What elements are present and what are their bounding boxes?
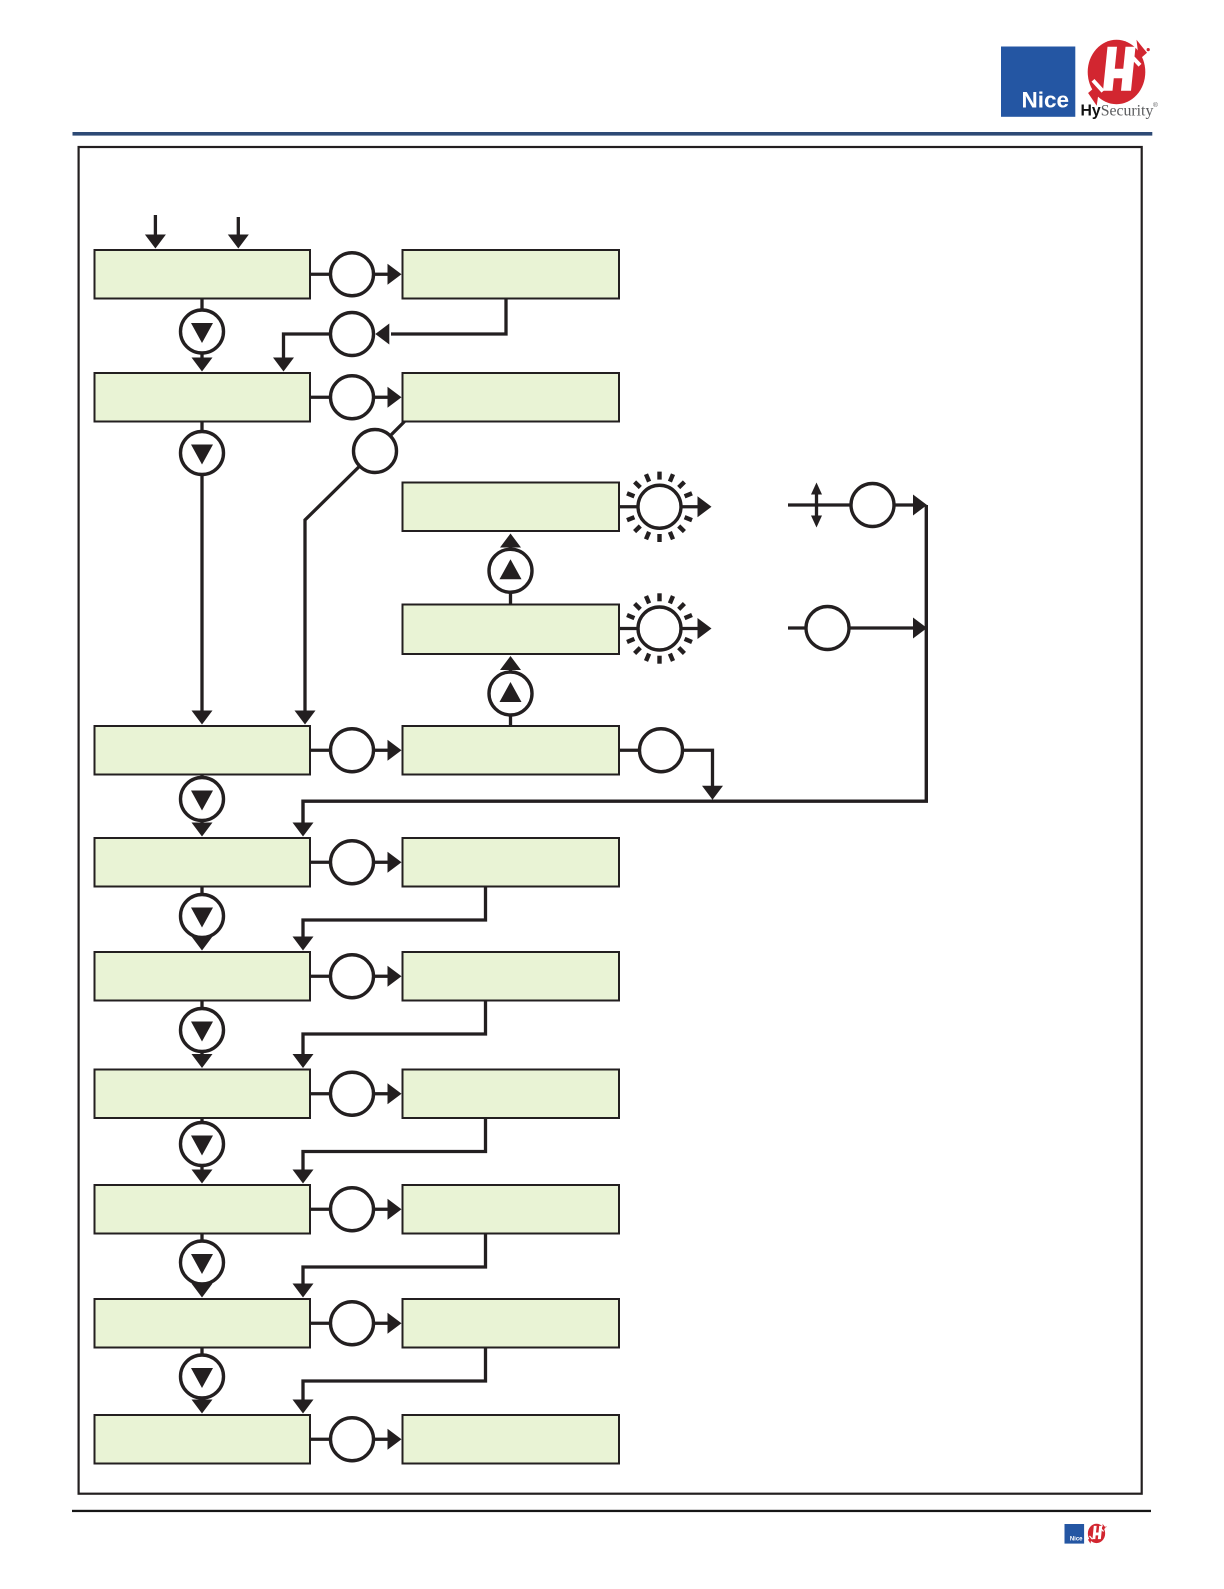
arrow into B6 bottom bbox=[500, 534, 521, 548]
display box R1-right bbox=[403, 250, 620, 299]
arrow into menu box R9-left (from DOWN) bbox=[192, 1400, 213, 1414]
arrow R9 button to right-box bbox=[374, 1438, 389, 1441]
blinking-display circle right of B6 bbox=[627, 472, 692, 542]
wire B6 to blinking circle bbox=[619, 505, 638, 508]
DOWN wire R4 to R5 bbox=[200, 887, 203, 938]
Nice logo blue square (header) bbox=[1001, 47, 1075, 117]
arrow from right-middle button to down-trunk bbox=[849, 626, 914, 629]
display box B6 (upper middle) bbox=[403, 483, 620, 532]
arrow out of blinking circle B7 bbox=[681, 627, 699, 630]
arrow into menu box R8-left (from DOWN) bbox=[192, 1284, 213, 1298]
DOWN wire R6 to R7 bbox=[200, 1118, 203, 1171]
wire R5 left-box to button bbox=[310, 975, 331, 978]
HySecurity logo small (footer) bbox=[1088, 1524, 1107, 1544]
wire R4 left-box to button bbox=[310, 861, 331, 864]
wire R3 left-box to button bbox=[310, 749, 331, 752]
wire return from R7-right display to R8-left bbox=[303, 1234, 486, 1285]
outer frame rectangle bbox=[79, 147, 1142, 1494]
DOWN button circle below R3 bbox=[181, 778, 224, 821]
UP/DOWN double arrow symbol bbox=[815, 491, 818, 519]
svg-text:Nice: Nice bbox=[1021, 88, 1069, 113]
menu box R3-left bbox=[95, 726, 311, 775]
wire B7 to blinking circle bbox=[619, 627, 638, 630]
arrow R1 button to right-box bbox=[374, 273, 389, 276]
menu box R9-left bbox=[95, 1415, 311, 1464]
menu box R8-left bbox=[95, 1299, 311, 1348]
menu box R2-left bbox=[95, 373, 311, 422]
svg-text:HySecurity: HySecurity bbox=[1081, 102, 1154, 119]
DOWN button circle below R7 bbox=[181, 1241, 224, 1284]
entry arrow into menu box R1 (left) bbox=[154, 215, 157, 237]
display box R2-right bbox=[403, 373, 620, 422]
menu box R7-left bbox=[95, 1185, 311, 1234]
wire trunk down right side bbox=[303, 505, 926, 823]
arrow R3 button to right-box bbox=[374, 749, 389, 752]
menu box R1-left bbox=[95, 250, 311, 299]
UP button circle between B7 and B6 bbox=[489, 549, 532, 592]
arrow into menu box R8-left (from return) bbox=[293, 1284, 314, 1298]
arrow R4 button to right-box bbox=[374, 861, 389, 864]
DOWN button circle below R4 bbox=[181, 895, 224, 938]
arrow R7 button to right-box bbox=[374, 1208, 389, 1211]
wire R2 left-box to button bbox=[310, 396, 331, 399]
arrow into menu box R4-left (from trunk) bbox=[293, 823, 314, 837]
arrow into menu box R2-left (from loop) bbox=[273, 358, 294, 372]
display box R5-right bbox=[403, 952, 620, 1001]
display box R4-right bbox=[403, 838, 620, 887]
wire return from R8-right display to R9-left bbox=[303, 1348, 486, 1401]
wire R7 left-box to button bbox=[310, 1208, 331, 1211]
wire return from R5-right display to R6-left bbox=[303, 1001, 486, 1056]
MENU button circle (R1 loop) bbox=[331, 313, 374, 356]
arrow into menu box R5-left (from DOWN) bbox=[192, 937, 213, 951]
button circle R3 bbox=[331, 729, 374, 772]
MENU button circle (R2 branch) bbox=[354, 430, 397, 473]
arrow into menu box R6-left (from DOWN) bbox=[192, 1054, 213, 1068]
DOWN wire R1 to R2 bbox=[200, 299, 203, 358]
arrow into menu box R3-left (from MENU branch) bbox=[295, 711, 316, 725]
wire MENU button diagonal+down to menu box R3-left bbox=[305, 451, 375, 711]
arrow into MENU button circle (loop R1) bbox=[375, 324, 389, 345]
display box B7 (middle) bbox=[403, 605, 620, 655]
UP button circle between R3-right and B7 bbox=[489, 672, 532, 715]
wire with UP/DOWN adjust symbol (right top) bbox=[788, 503, 851, 506]
button circle (right middle) bbox=[806, 607, 849, 650]
arrow R8 button to right-box bbox=[374, 1322, 389, 1325]
footer rule bbox=[72, 1510, 1151, 1512]
arrow R5 button to right-box bbox=[374, 975, 389, 978]
menu box R5-left bbox=[95, 952, 311, 1001]
arrow into menu box R7-left (from return) bbox=[293, 1170, 314, 1184]
svg-text:®: ® bbox=[1153, 101, 1158, 109]
DOWN wire R3 to R4 bbox=[200, 775, 203, 824]
button circle R5 bbox=[331, 955, 374, 998]
button circle R6 bbox=[331, 1072, 374, 1115]
header rule (navy) bbox=[73, 132, 1153, 136]
Nice logo small (footer) bbox=[1065, 1524, 1085, 1544]
menu box R6-left bbox=[95, 1070, 311, 1119]
arrow into menu box R7-left (from DOWN) bbox=[192, 1170, 213, 1184]
wire return from R4-right display to R5-left bbox=[303, 887, 486, 938]
DOWN button circle below R2 bbox=[181, 432, 224, 475]
button circle R9 bbox=[331, 1418, 374, 1461]
wire MENU button to menu box R2-left bbox=[284, 334, 331, 359]
arrow into menu box R3-left (from DOWN) bbox=[192, 711, 213, 725]
arrow from right-top button to down-trunk bbox=[894, 503, 914, 506]
button circle R7 bbox=[331, 1188, 374, 1231]
arrow R6 button to right-box bbox=[374, 1092, 389, 1095]
wire R8 left-box to button bbox=[310, 1322, 331, 1325]
wire R9 left-box to button bbox=[310, 1438, 331, 1441]
DOWN wire R7 to R8 bbox=[200, 1234, 203, 1285]
button circle R1 bbox=[331, 253, 374, 296]
wire into right-middle button bbox=[788, 626, 807, 629]
display box R6-right bbox=[403, 1070, 620, 1119]
UP wire R3-right to B7 bbox=[509, 670, 512, 727]
wire R3-right to exit button bbox=[619, 749, 640, 752]
arrow onto trunk line (from exit button) bbox=[702, 786, 723, 800]
arrow out of blinking circle B6 bbox=[681, 505, 699, 508]
button circle (right top) bbox=[851, 484, 894, 527]
entry arrow into menu box R1 (right) bbox=[237, 217, 240, 237]
wire return from R6-right display to R7-left bbox=[303, 1118, 486, 1171]
DOWN button circle below R6 bbox=[181, 1123, 224, 1166]
arrow into menu box R4-left bbox=[192, 823, 213, 837]
display box R3-right bbox=[403, 726, 620, 775]
blinking-display circle right of B7 bbox=[627, 593, 692, 663]
button circle R8 bbox=[331, 1302, 374, 1345]
arrow into menu box R2-left bbox=[192, 358, 213, 372]
arrow into menu box R6-left (from return) bbox=[293, 1054, 314, 1068]
DOWN button circle below R1 bbox=[181, 310, 224, 353]
DOWN button circle below R8 bbox=[181, 1355, 224, 1398]
exit button circle (right of R3) bbox=[640, 729, 683, 772]
DOWN button circle below R5 bbox=[181, 1009, 224, 1052]
arrow into menu box R5-left (from return) bbox=[293, 937, 314, 951]
arrow R2 button to right-box bbox=[374, 396, 389, 399]
wire R6 left-box to button bbox=[310, 1092, 331, 1095]
wire exit button down to trunk bbox=[683, 750, 713, 786]
display box R7-right bbox=[403, 1185, 620, 1234]
HySecurity S-arrow logo (header) bbox=[1088, 40, 1150, 106]
button circle R4 bbox=[331, 841, 374, 884]
DOWN wire R2 to R3 (long) bbox=[200, 422, 203, 711]
display box R8-right bbox=[403, 1299, 620, 1348]
DOWN wire R5 to R6 bbox=[200, 1001, 203, 1056]
display box R9-right bbox=[403, 1415, 620, 1464]
DOWN wire R8 to R9 bbox=[200, 1348, 203, 1401]
wire return loop from R1-right display down to MENU button bbox=[391, 299, 506, 335]
UP wire B7 to B6 bbox=[509, 547, 512, 605]
wire diagonal from R2-right display to MENU button bbox=[375, 422, 405, 452]
arrow into menu box R9-left (from return) bbox=[293, 1400, 314, 1414]
menu box R4-left bbox=[95, 838, 311, 887]
svg-text:Nice: Nice bbox=[1070, 1537, 1083, 1543]
arrow into B7 bottom bbox=[500, 656, 521, 670]
button circle R2 bbox=[331, 376, 374, 419]
wire R1 left-box to button bbox=[310, 273, 331, 276]
